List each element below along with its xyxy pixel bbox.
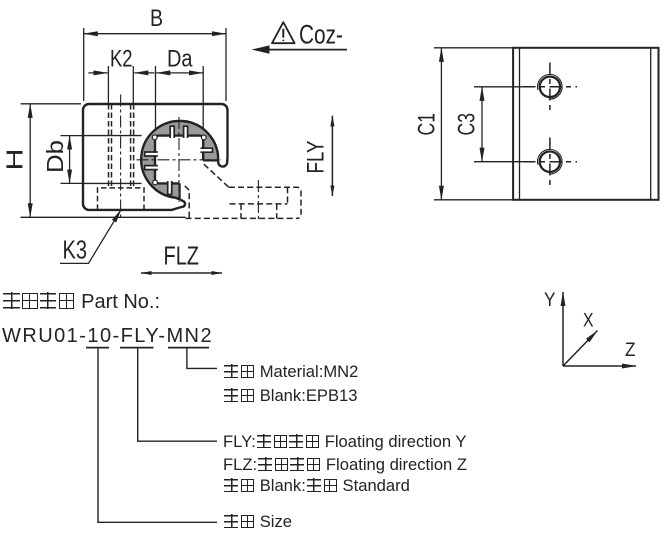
dim K2 ext lines — [108, 66, 133, 103]
svg-text:C3: C3 — [454, 113, 481, 136]
svg-text:K3: K3 — [63, 235, 88, 265]
bore corner hole TL — [152, 135, 157, 140]
svg-text:Z: Z — [625, 339, 636, 361]
FLY arrow — [331, 116, 333, 196]
rail hidden verticals — [241, 187, 288, 218]
slot top right — [184, 126, 188, 138]
hole 2 minor circle — [540, 152, 560, 172]
FLZ arrow — [141, 272, 222, 274]
rail hidden mid line — [230, 203, 288, 205]
note material line 1 — [223, 362, 358, 382]
pad bottom edge — [171, 197, 179, 198]
plate outline — [513, 48, 658, 200]
dim B line — [84, 33, 226, 35]
leader size — [98, 348, 217, 523]
rail hidden bottom edge — [186, 217, 298, 219]
slot top left — [170, 126, 174, 138]
housing body outline — [83, 104, 228, 210]
base line solid — [21, 216, 186, 218]
bore corner hole TR — [201, 135, 206, 140]
bore corner hole BL — [153, 180, 158, 185]
svg-text:X: X — [583, 310, 594, 332]
screw hole 1 hidden lines — [109, 104, 112, 188]
slot right — [201, 148, 213, 152]
note material line 2 — [223, 386, 357, 406]
dim C3 line — [481, 87, 483, 162]
dim K2 arrows — [88, 72, 107, 74]
svg-text:Coz-: Coz- — [299, 19, 343, 49]
liner edge right — [203, 159, 217, 161]
svg-text:Y: Y — [544, 289, 556, 311]
vertical centerline of bore — [178, 117, 180, 202]
rail neck hidden diagonal — [204, 164, 229, 187]
svg-text:B: B — [150, 5, 163, 32]
svg-text:K2: K2 — [110, 46, 133, 73]
note floating line 3 — [223, 476, 410, 496]
part number code — [2, 325, 213, 348]
hole 2 thread arc — [538, 149, 563, 174]
heading Part No. — [2, 291, 160, 314]
note floating line 1 — [223, 432, 466, 452]
note size — [223, 512, 292, 532]
slot bottom — [168, 181, 172, 195]
Z axis — [563, 365, 636, 367]
dim Da line — [156, 72, 203, 74]
hole 1 minor circle — [540, 77, 560, 97]
Y axis — [562, 292, 564, 366]
K3 leader — [60, 209, 121, 263]
dim Da ext lines — [156, 66, 204, 131]
horizontal centerline of bore — [137, 159, 222, 161]
bore top edge line — [83, 135, 142, 137]
rail centerline — [257, 180, 259, 222]
underline size 10 — [86, 347, 109, 349]
svg-text:Db: Db — [42, 140, 68, 173]
svg-text:Da: Da — [167, 46, 193, 73]
rail hidden top edge — [229, 187, 301, 218]
svg-text:FLY: FLY — [303, 141, 330, 174]
Coz direction arrow — [256, 49, 347, 51]
dim B ext lines — [84, 28, 226, 101]
hole 1 crosshair — [524, 63, 578, 112]
underline MN2 — [168, 347, 209, 349]
bearing liner gray annulus — [141, 121, 218, 198]
dim H ext top — [21, 103, 81, 105]
note floating line 2 — [223, 455, 467, 475]
slot left upper — [145, 152, 158, 156]
liner edge bottom pad — [179, 183, 181, 199]
flange top edge line — [83, 182, 142, 184]
screw hole centerline — [120, 95, 122, 218]
screw hole 2 hidden lines — [131, 104, 134, 188]
svg-text:H: H — [2, 149, 28, 171]
plate bend line right — [650, 48, 652, 200]
hole 1 thread arc — [538, 74, 563, 99]
underline FLY — [120, 347, 154, 349]
K3 pocket hidden outline — [98, 188, 145, 210]
svg-text:FLZ: FLZ — [164, 243, 200, 271]
dim Db line — [69, 136, 71, 184]
dim C3 ext lines — [474, 87, 535, 162]
slot left lower — [145, 166, 158, 170]
bore square outline — [155, 136, 203, 184]
rail neck hidden left edge — [185, 186, 189, 219]
dim H line — [29, 104, 31, 218]
X axis — [563, 331, 598, 367]
plate bend line left — [519, 48, 521, 200]
dim C1 ext lines — [434, 48, 513, 200]
dim C1 line — [440, 48, 442, 200]
svg-text:C1: C1 — [414, 113, 441, 136]
leader FLY — [138, 348, 217, 442]
dim Db ext lines — [61, 136, 84, 184]
warning triangle — [272, 22, 295, 43]
hole 2 crosshair — [524, 138, 578, 187]
opening sector white-out — [181, 162, 234, 213]
leader MN2 — [187, 348, 217, 369]
